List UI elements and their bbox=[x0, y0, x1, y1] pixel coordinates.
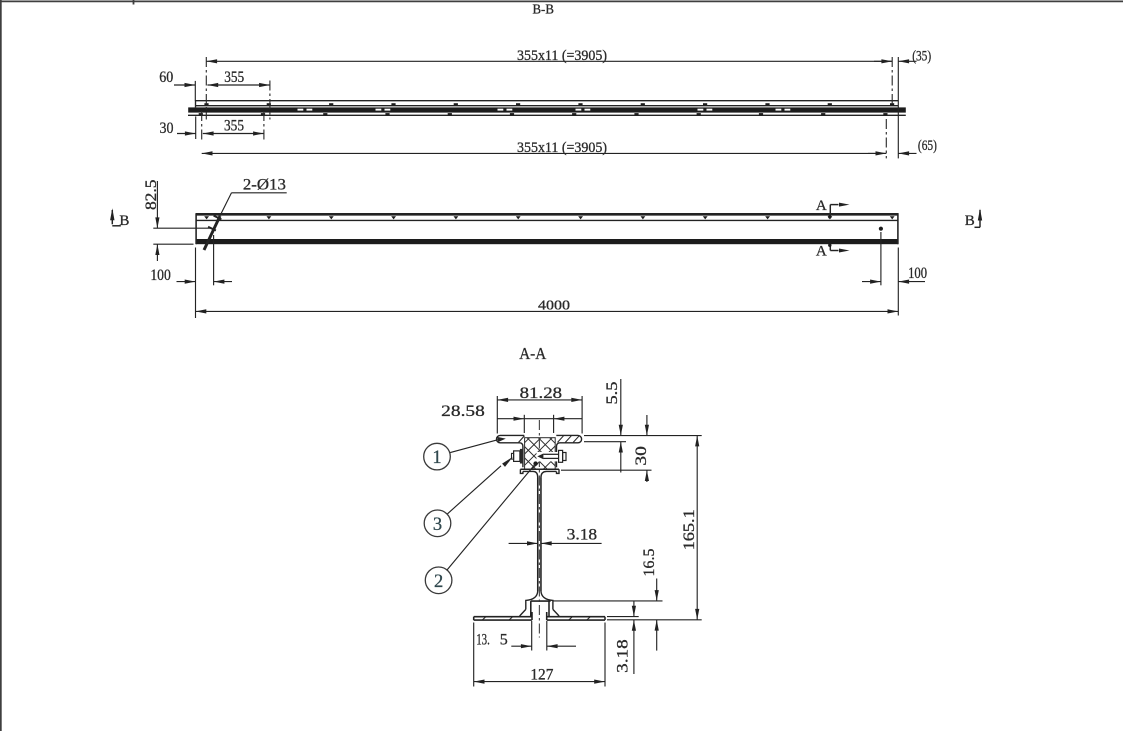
profile hat inner ceiling bbox=[531, 600, 551, 602]
profile web flare left bbox=[526, 591, 538, 609]
section mark A top dot bbox=[828, 215, 831, 218]
set screw shaft bbox=[543, 453, 558, 455]
hex bolt washer bbox=[520, 449, 523, 464]
profile channel underside right bbox=[541, 471, 557, 477]
profile channel bottom right lip bbox=[557, 469, 560, 473]
section mark B left arrow bbox=[111, 210, 113, 224]
dim 5.5 line bbox=[620, 379, 622, 436]
dim (65) arrows bbox=[868, 152, 886, 154]
dim 82.5 line upper bbox=[156, 181, 158, 228]
svg-text:28.58: 28.58 bbox=[441, 403, 485, 420]
dim 355x11(=3905) top line bbox=[206, 60, 892, 62]
svg-text:5: 5 bbox=[500, 631, 508, 648]
dim 3.18 web line bbox=[509, 542, 538, 544]
profile hat inner wall right bbox=[548, 601, 550, 617]
profile web flare right bbox=[541, 591, 553, 609]
dim 30 right line bbox=[646, 415, 648, 436]
ext line plate right end bbox=[604, 623, 606, 687]
svg-text:(35): (35) bbox=[912, 48, 931, 64]
balloon 1 leader bbox=[450, 440, 498, 453]
svg-text:3.18: 3.18 bbox=[615, 639, 632, 673]
set screw white underlay bbox=[537, 452, 568, 461]
hole dot right ext line bbox=[880, 232, 882, 285]
hex bolt end cap bbox=[512, 453, 514, 459]
profile left flange bbox=[497, 435, 525, 467]
set screw end bbox=[563, 453, 566, 461]
dim 13.5 line bbox=[511, 645, 531, 647]
svg-text:(65): (65) bbox=[918, 138, 937, 154]
dim 165.1 line bbox=[696, 436, 698, 620]
section mark A bottom dot bbox=[828, 244, 831, 247]
label 2-Ø13 leader shelf bbox=[232, 192, 287, 194]
centerline first bottom hole bbox=[201, 111, 203, 140]
base plate bottom line bbox=[474, 619, 532, 621]
svg-text:3: 3 bbox=[433, 515, 442, 535]
ext line bolt hole left bbox=[213, 235, 215, 285]
ext line plate left end bbox=[473, 623, 475, 687]
ext line slot left bbox=[523, 415, 525, 433]
dim 355 bottom line bbox=[203, 133, 264, 135]
centerline first top hole bbox=[205, 57, 207, 120]
ext line B-B rail right end bbox=[897, 57, 899, 158]
anchor bolt slanted bbox=[204, 216, 220, 250]
svg-text:A: A bbox=[816, 243, 827, 259]
centerline last bottom hole bbox=[885, 119, 887, 158]
svg-text:B-B: B-B bbox=[533, 2, 554, 17]
svg-text:3.18: 3.18 bbox=[567, 527, 598, 544]
dim 28.58 line bbox=[497, 418, 582, 420]
profile hat foot right bbox=[553, 609, 559, 616]
svg-text:355x11 (=3905): 355x11 (=3905) bbox=[517, 140, 607, 156]
svg-text:100: 100 bbox=[908, 265, 927, 282]
section mark A top elbow bbox=[830, 204, 838, 206]
side view rail second line bbox=[196, 219, 898, 221]
ext line flange right bbox=[581, 396, 583, 434]
base plate left end cap bbox=[473, 617, 475, 620]
dim 82.5 line lower bbox=[156, 244, 158, 261]
dim 100 right line bbox=[862, 281, 881, 283]
dim 81.28 line bbox=[497, 399, 582, 401]
profile channel floor line bbox=[520, 468, 559, 470]
profile web left line bbox=[537, 478, 539, 592]
B-B rail second line bbox=[196, 105, 899, 107]
profile hat slot edge left bbox=[531, 612, 533, 620]
svg-text:2-Ø13: 2-Ø13 bbox=[243, 177, 286, 194]
hole dot right bbox=[879, 227, 883, 231]
svg-text:100: 100 bbox=[150, 267, 171, 284]
ext line slot13 right bbox=[546, 621, 548, 651]
leader end dot item2 bbox=[533, 461, 537, 465]
page left border line bbox=[0, 0, 2, 731]
label 2-Ø13 leader slant bbox=[220, 193, 232, 216]
set screw head bbox=[559, 450, 563, 462]
ext line hole center left bbox=[153, 227, 210, 229]
B-B rail thick band bbox=[188, 107, 906, 112]
profile channel bottom left lip bbox=[520, 469, 523, 473]
dim 30 line bbox=[177, 133, 196, 135]
frame tick mark bbox=[133, 0, 135, 5]
svg-text:2: 2 bbox=[434, 572, 443, 592]
ext line channel bottom right bbox=[561, 469, 652, 471]
ext line side rail left end bbox=[195, 248, 197, 319]
ext line flange left bbox=[496, 396, 498, 434]
svg-text:165.1: 165.1 bbox=[681, 509, 698, 550]
ext line rail bottom left bbox=[153, 243, 193, 245]
dim 355x11(=3905) bottom line bbox=[202, 152, 887, 154]
profile hat inner wall left bbox=[530, 601, 532, 617]
svg-text:1: 1 bbox=[432, 448, 441, 468]
B-B band white slot marks bbox=[298, 109, 791, 111]
base plate break slashes bbox=[482, 617, 486, 620]
hatch block outline bbox=[525, 438, 556, 470]
profile hat slot edge right bbox=[546, 612, 548, 620]
B-B bottom row hole marks bbox=[199, 113, 888, 115]
svg-text:355: 355 bbox=[224, 117, 244, 134]
centerline second top hole bbox=[269, 81, 271, 120]
side view rail right edge bbox=[897, 213, 899, 244]
crosshatch in clamp slot bbox=[525, 438, 556, 470]
svg-text:60: 60 bbox=[159, 69, 173, 86]
dim 3.18 plate line bbox=[633, 601, 635, 617]
dim 16.5 line bbox=[656, 579, 658, 601]
balloon 2 leader bbox=[447, 464, 536, 570]
side view rail thick band bbox=[196, 239, 898, 244]
svg-text:30: 30 bbox=[160, 120, 174, 137]
balloon 1 circle bbox=[424, 443, 451, 470]
set screw cone tip bbox=[537, 454, 543, 460]
base plate right end cap bbox=[604, 617, 606, 620]
balloon 2 circle bbox=[425, 567, 452, 594]
B-B rail left end edge bbox=[195, 101, 197, 108]
dim 100 left line bbox=[177, 281, 196, 283]
ext line B-B rail left end upper bbox=[194, 81, 196, 101]
ext line slot13 left bbox=[531, 621, 533, 651]
svg-text:13.: 13. bbox=[476, 631, 490, 648]
profile right flange bbox=[556, 435, 581, 467]
balloon 3 leader bbox=[448, 466, 502, 514]
svg-text:B: B bbox=[965, 213, 975, 229]
svg-text:355: 355 bbox=[224, 69, 244, 86]
profile channel underside left bbox=[523, 471, 538, 477]
ext line flange top right bbox=[584, 435, 702, 437]
hex bolt head bbox=[514, 451, 520, 462]
dim 60 line bbox=[174, 84, 195, 86]
ext line hat ceiling right bbox=[553, 600, 663, 602]
side view rail left edge bbox=[195, 213, 197, 244]
svg-text:30: 30 bbox=[633, 446, 650, 466]
svg-text:A: A bbox=[816, 198, 827, 214]
base plate top line bbox=[474, 616, 532, 618]
profile centerline bbox=[538, 420, 540, 638]
B-B rail top edge line bbox=[196, 100, 899, 102]
ext line B-B rail left end lower bbox=[195, 116, 197, 139]
profile web right line bbox=[540, 478, 542, 592]
ext line last top hole centerline bbox=[891, 57, 893, 104]
side view screw marks bbox=[204, 216, 894, 219]
ext line slot right bbox=[553, 415, 555, 433]
section mark A bottom elbow bbox=[830, 250, 838, 252]
right flange hatch slashes bbox=[558, 436, 564, 443]
centerline second bottom hole bbox=[263, 111, 265, 140]
B-B top row hole marks bbox=[204, 103, 894, 105]
side view rail top line bbox=[196, 213, 898, 216]
svg-text:355x11 (=3905): 355x11 (=3905) bbox=[517, 48, 607, 64]
ext line plate bottom right bbox=[607, 619, 702, 621]
svg-text:16.5: 16.5 bbox=[641, 548, 658, 576]
svg-text:5.5: 5.5 bbox=[604, 381, 621, 404]
svg-text:4000: 4000 bbox=[538, 298, 570, 313]
balloon 3 circle bbox=[424, 510, 451, 537]
svg-text:A-A: A-A bbox=[519, 344, 546, 363]
anchor bolt tick head bbox=[214, 216, 222, 220]
svg-text:B: B bbox=[119, 213, 129, 229]
ext line plate top right bbox=[607, 616, 639, 618]
left flange hatch slash bbox=[519, 436, 525, 443]
profile hat foot left bbox=[520, 609, 526, 616]
ext line flange bottom right bbox=[584, 441, 626, 443]
B-B rail bottom line bbox=[188, 114, 906, 116]
dim 4000 line bbox=[196, 310, 899, 312]
dim 355 top line bbox=[207, 84, 270, 86]
dim 127 line bbox=[474, 681, 605, 683]
dim (35) arrows bbox=[874, 60, 892, 62]
page top border line bbox=[0, 0, 1123, 2]
anchor bolt tick washer bbox=[208, 227, 216, 231]
ext line side rail right end bbox=[897, 248, 899, 316]
section mark B right arrow bbox=[979, 210, 981, 227]
